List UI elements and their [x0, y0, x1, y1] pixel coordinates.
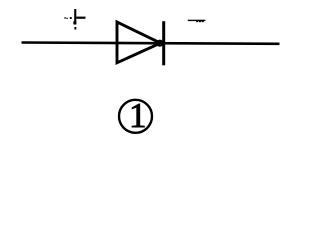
label + (anode polarity): [64, 9, 85, 30]
svg-text:1: 1: [129, 96, 147, 135]
diode D1: [117, 21, 164, 65]
label - (cathode polarity): [188, 20, 206, 23]
wire: [22, 43, 280, 44]
node 1 (circled): [119, 96, 152, 135]
